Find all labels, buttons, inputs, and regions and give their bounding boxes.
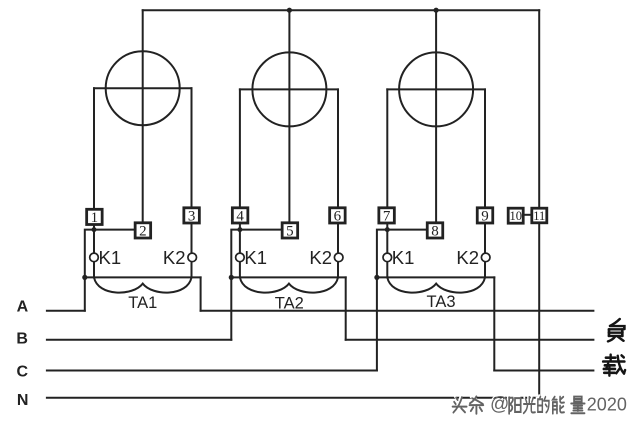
terminal K1 of TA1 [90,253,99,262]
svg-text:@: @ [490,394,509,415]
wire phase A rise to TA1 [84,277,86,310]
label load 负 [608,319,624,341]
label phase C [17,363,29,380]
svg-text:10: 10 [509,209,522,223]
wire meter M2 center lead (top bus to terminal 5) [288,10,290,223]
terminal box 2 [135,223,151,240]
terminal box 6 [330,208,346,225]
svg-text:5: 5 [286,224,294,240]
wire terminal 1 to K1 of TA1 [93,222,95,277]
watermark 头条@阳光的能量2020 [453,394,627,415]
svg-text:11: 11 [533,209,545,223]
wire terminal 7 to K1 of TA3 [386,222,388,277]
node junction phase rise / TA3 primary [374,275,379,280]
node junction tap/terminal-4 lead [237,227,242,232]
wire neutral N line [47,397,539,399]
terminal K2 of TA3 [481,253,490,262]
label phase A [17,299,29,316]
label K1 of TA3 [392,247,415,268]
terminal K1 of TA3 [383,253,392,262]
svg-text:6: 6 [334,209,342,225]
svg-text:TA3: TA3 [426,293,455,311]
wire TA3 primary exit to load line [493,277,495,370]
terminal box 8 [427,223,443,240]
svg-text:4: 4 [236,209,244,225]
svg-text:K2: K2 [309,247,332,268]
wire meter M3 left lead to terminal 7 [386,89,388,208]
svg-text:C: C [17,363,29,380]
label phase B [16,331,28,348]
terminal box 1 [87,209,103,226]
wire top voltage bus [143,9,540,11]
wire top bus to terminal 11 [538,10,540,208]
wire phase B load line [346,339,594,341]
wire meter M1 center lead (top bus to terminal 2) [142,10,144,223]
node junction phase rise / TA2 primary [229,275,234,280]
wire phase B rise to TA2 [230,277,232,339]
wire meter M1 left lead to terminal 1 [93,88,95,209]
CT TA1 secondary winding [94,277,192,292]
wire phase C source line [47,370,377,372]
wire TA2 primary exit to load line [345,277,347,339]
wire terminal 6 to K2 of TA2 [337,222,339,277]
terminal box 7 [379,208,395,225]
label K1 of TA1 [99,247,122,268]
terminal K2 of TA1 [188,253,197,262]
wire meter M2 left lead to terminal 4 [239,89,241,208]
meter element M2 (measuring unit circle) [252,52,326,126]
node junction bus/M3 [434,8,439,13]
wire phase C load line [494,370,593,372]
label K1 of TA2 [244,247,267,268]
terminal box 3 [184,208,200,225]
svg-text:1: 1 [91,210,99,226]
wire meter M3 right lead to terminal 9 [484,89,486,208]
svg-text:2: 2 [139,224,147,240]
label K2 of TA1 [163,247,186,268]
svg-text:K1: K1 [392,247,415,268]
node junction bus/M2 [287,8,292,13]
svg-text:N: N [17,392,29,409]
wire phase C rise to TA3 [376,277,378,370]
wire terminal 11 to neutral line [538,223,540,398]
wire CT TA3 primary conductor [377,276,494,278]
svg-text:K2: K2 [163,247,186,268]
wire meter M3 center lead (top bus to terminal 8) [435,10,437,223]
wire phase A load line [201,310,594,312]
label TA3 [426,293,455,311]
wire terminal 9 to K2 of TA3 [484,222,486,277]
label load 载 [603,355,625,376]
wire meter M1 right lead to terminal 3 [191,88,193,209]
wire meter M2 right lead to terminal 6 [337,89,339,208]
wire terminal 2 voltage tap [85,230,135,278]
meter element M3 (measuring unit circle) [399,52,473,126]
label TA2 [275,295,304,313]
terminal box 4 [232,208,248,225]
terminal box 9 [477,208,493,225]
meter element M1 (measuring unit circle) [106,51,180,125]
wire phase B source line [47,339,231,341]
wire meter M2 horizontal lead [240,88,338,90]
node junction tap/terminal-7 lead [385,227,390,232]
svg-text:3: 3 [188,209,196,225]
terminal K2 of TA2 [334,253,343,262]
wire meter M1 horizontal lead [94,87,192,89]
terminal box 5 [282,223,298,240]
svg-text:8: 8 [431,224,439,240]
svg-text:B: B [16,331,28,348]
wire terminal 8 voltage tap [377,230,429,278]
svg-text:A: A [17,299,29,316]
label phase N [17,392,29,409]
wire terminal 5 voltage tap [231,230,282,278]
wire CT TA1 primary conductor [85,276,201,278]
svg-text:TA1: TA1 [128,294,157,312]
CT TA2 secondary winding [240,277,338,292]
terminal box 10 [508,208,523,223]
label K2 of TA3 [456,247,479,268]
svg-text:7: 7 [383,209,391,225]
wire terminal 4 to K1 of TA2 [239,222,241,277]
wire meter M3 horizontal lead [387,88,485,90]
node junction phase rise / TA1 primary [82,275,87,280]
wire link terminal 10 - terminal 11 [523,214,532,216]
CT TA3 secondary winding [387,277,485,292]
svg-text:2020: 2020 [587,394,627,414]
watermark 头条@阳光的能量2020 (white emboss) [451,393,625,414]
wire phase A source line [47,310,85,312]
terminal K1 of TA2 [236,253,245,262]
label TA1 [128,294,157,312]
svg-text:K1: K1 [99,247,122,268]
terminal box 11 [532,208,547,223]
svg-text:K1: K1 [244,247,267,268]
svg-text:9: 9 [481,209,489,225]
svg-text:K2: K2 [456,247,479,268]
label K2 of TA2 [309,247,332,268]
node junction tap/terminal-1 lead [92,227,97,232]
wire CT TA2 primary conductor [231,276,345,278]
wire TA1 primary exit to load line [200,277,202,310]
wire terminal 3 to K2 of TA1 [191,222,193,277]
